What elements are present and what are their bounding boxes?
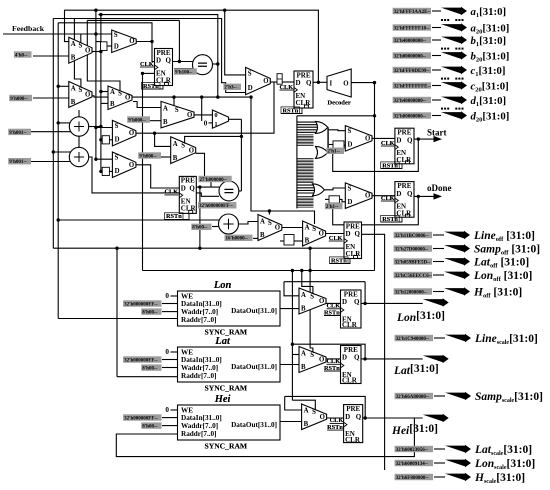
svg-text:Lonoff [31:0]: Lonoff [31:0] — [473, 270, 532, 283]
svg-text:B: B — [301, 364, 306, 371]
mux M13 Lat — [299, 347, 326, 373]
svg-text:S: S — [310, 352, 314, 359]
wire vertical select net x96 — [95, 10, 97, 159]
svg-text:Lat[31:0]: Lat[31:0] — [393, 363, 439, 377]
wire Latscale — [434, 448, 445, 450]
wire 8h00 const to adder U6 — [212, 226, 219, 228]
wire G3 input — [297, 187, 314, 189]
svg-text:PRE: PRE — [397, 129, 411, 137]
svg-text:O: O — [275, 225, 280, 232]
svg-text:32'h11BC0006--: 32'h11BC0006-- — [395, 234, 430, 239]
svg-text:Waddr[7..0]: Waddr[7..0] — [181, 422, 218, 430]
flip-flop FF3 — [179, 176, 196, 213]
junction — [94, 9, 97, 12]
bus arrow Lat — [423, 355, 449, 363]
bus arrow c20 — [441, 81, 467, 89]
svg-text:D: D — [342, 298, 347, 306]
wire G1 input — [297, 124, 318, 126]
wire adder U4 top stub — [78, 110, 80, 117]
RSTn FF4 — [381, 162, 402, 169]
wire FF7.Q out — [361, 302, 423, 304]
svg-text:Waddr[7..0]: Waddr[7..0] — [181, 364, 218, 372]
svg-text:0: 0 — [204, 119, 208, 127]
svg-text:2'h1--: 2'h1-- — [326, 205, 339, 210]
svg-text:27'h000000--: 27'h000000-- — [200, 178, 228, 183]
wire G3 input — [297, 189, 314, 191]
svg-text:S: S — [118, 90, 122, 97]
wire 16h0000 const to M7.B — [253, 237, 258, 239]
junction — [99, 13, 102, 16]
connector box SD1.D — [102, 136, 109, 144]
value 27h0 — [199, 176, 232, 183]
svg-text:Q: Q — [166, 57, 172, 65]
wire data net to M4.A — [101, 91, 108, 93]
junction — [115, 247, 118, 250]
svg-text:D: D — [114, 44, 119, 51]
wire Waddr const — [162, 367, 178, 369]
wire stub D box M3 — [96, 41, 101, 43]
svg-text:8'h00--: 8'h00-- — [142, 367, 157, 372]
bus arrow a20 — [441, 23, 467, 31]
flip-flop FF8 Lat — [341, 346, 362, 385]
wire G1 input — [297, 129, 318, 131]
svg-text:A: A — [110, 89, 115, 96]
svg-text:b1[31:0]: b1[31:0] — [471, 35, 507, 48]
wire M9.O to box — [270, 81, 277, 83]
svg-text:Raddr[7..0]: Raddr[7..0] — [181, 316, 217, 324]
value 16h0000 — [225, 235, 253, 242]
wire G1 input — [297, 121, 318, 123]
svg-text:PRE: PRE — [297, 71, 311, 79]
value b20 — [393, 52, 431, 59]
svg-text:D: D — [346, 230, 351, 238]
wire FF1.Q vertical — [178, 20, 180, 61]
mux M9 — [246, 67, 271, 94]
svg-text:32'hFFF0DE99--: 32'hFFF0DE99-- — [394, 69, 430, 74]
sync ram RAM1 Lon — [178, 280, 281, 336]
value 8h00 Waddr — [141, 364, 161, 371]
wire SD2 box to D — [109, 170, 112, 172]
wire d1 — [432, 99, 441, 101]
svg-text:Q: Q — [355, 230, 361, 238]
wire M2.S drop — [74, 19, 81, 88]
wire 9h001 const to adder U4 — [31, 131, 71, 133]
junction — [417, 137, 420, 140]
wire RAM2 DataOut to Lat mux B — [280, 364, 299, 366]
junction — [363, 357, 366, 360]
mux SD2 — [112, 152, 135, 178]
svg-text:D: D — [348, 199, 353, 206]
ellipsis dots — [441, 78, 464, 80]
adder U6 — [219, 214, 239, 234]
wire box to M11.D — [340, 199, 346, 201]
svg-text:DataIn[31..0]: DataIn[31..0] — [181, 300, 222, 308]
svg-text:S: S — [79, 43, 83, 50]
wire EN to FF1 — [143, 72, 155, 74]
svg-text:O: O — [129, 38, 134, 45]
wire WE const RAM1 — [171, 295, 178, 297]
wire M4.S drop — [87, 20, 120, 92]
wire Lonscale — [434, 462, 445, 464]
value Latoff — [394, 258, 432, 265]
wire Waddr const — [162, 311, 178, 313]
mux M8 — [303, 221, 326, 246]
mux M12 Lon — [299, 288, 326, 314]
svg-text:B: B — [71, 99, 76, 106]
svg-text:A: A — [301, 350, 306, 357]
wire box to M3.D — [107, 45, 112, 47]
junction — [94, 32, 97, 35]
RSTn FF8 — [324, 365, 341, 372]
or gate output bus bar — [327, 127, 329, 152]
adder U4 — [69, 117, 88, 136]
junction — [363, 302, 366, 305]
value 9h001 b — [8, 158, 31, 165]
wire Hoff — [433, 291, 444, 293]
wire box to M8.B — [294, 240, 303, 242]
svg-text:PRE: PRE — [344, 290, 358, 298]
mux M10 — [345, 126, 372, 152]
svg-text:Hei: Hei — [214, 394, 231, 405]
wire Lonoff — [433, 274, 444, 276]
svg-text:A: A — [301, 292, 306, 299]
value c1 — [393, 67, 431, 74]
svg-text:PRE: PRE — [157, 49, 171, 57]
value 8h00 — [191, 224, 211, 231]
wire a1 — [432, 10, 441, 12]
svg-text:Q: Q — [407, 136, 413, 144]
wire Lineoff — [433, 234, 444, 236]
wire FF9.Q out — [363, 417, 423, 419]
junction — [99, 50, 102, 53]
bus arrow Lonscale — [445, 459, 471, 467]
svg-text:S: S — [248, 71, 252, 78]
value Lonoff — [394, 272, 433, 279]
mux M6 — [171, 137, 196, 164]
wire G3 input — [297, 184, 314, 186]
wire select to SD1.S — [96, 127, 113, 129]
svg-text:9'h001--: 9'h001-- — [9, 160, 27, 165]
bus arrow Hoff — [444, 287, 470, 295]
wire Linescale — [434, 337, 445, 339]
junction — [198, 247, 201, 250]
wire WE const RAM3 — [171, 409, 178, 411]
wire FF3.Q down to enable line — [199, 187, 201, 248]
flip-flop FF7 Lon — [341, 290, 362, 329]
svg-text:Decoder: Decoder — [327, 100, 351, 107]
wire net to adder U4 upper input — [58, 122, 70, 124]
svg-text:32'h27D00000--: 32'h27D00000-- — [395, 247, 429, 252]
svg-text:B: B — [304, 421, 309, 428]
svg-text:CLR: CLR — [345, 436, 361, 444]
wire 9h001 const to adder U5 — [31, 161, 71, 163]
wire M11.O to FF5.D — [372, 195, 395, 197]
junction — [308, 247, 311, 250]
svg-text:Raddr[7..0]: Raddr[7..0] — [181, 372, 217, 380]
junction — [373, 114, 376, 117]
svg-text:PRE: PRE — [397, 182, 411, 190]
wire Hei hold loop — [285, 396, 366, 418]
wire Lat hold loop — [292, 344, 365, 359]
or gate G1 — [316, 121, 328, 133]
svg-text:PRE: PRE — [344, 346, 358, 354]
bus arrow Hscale — [445, 473, 471, 481]
mux M2 — [69, 82, 92, 108]
value 32h000000FF DataIn — [123, 300, 161, 307]
bus arrow Lonoff — [444, 271, 470, 279]
junction — [364, 416, 367, 419]
wire c20 — [432, 85, 441, 87]
junction — [417, 195, 420, 198]
svg-text:32'h000000FF--: 32'h000000FF-- — [124, 302, 158, 307]
svg-text:16'h0000--: 16'h0000-- — [226, 237, 249, 242]
bus arrow d20 — [441, 111, 467, 119]
svg-text:O: O — [320, 414, 325, 421]
wire to RAM1 Raddr — [58, 318, 177, 320]
wire 9h100 const to comparator U3 — [174, 68, 194, 70]
svg-text:S: S — [114, 32, 118, 39]
wire 9h000 const to M6.B — [161, 156, 171, 158]
wire top loop2 to comparator U3 output net — [98, 15, 217, 98]
comparator U7 — [219, 181, 239, 201]
wire FF8.Q out — [361, 358, 423, 360]
bus arrow Sampoff — [444, 244, 470, 252]
value 2h1 oDone — [325, 203, 343, 210]
value 9h000 M6 — [138, 152, 161, 159]
svg-text:Hscale[31:0]: Hscale[31:0] — [474, 472, 525, 485]
svg-text:32'h000000FF--: 32'h000000FF-- — [124, 416, 158, 421]
wire M10.O to FF4.D — [372, 137, 395, 139]
junction — [153, 132, 156, 135]
svg-text:A: A — [163, 105, 168, 112]
wire Lon mux O to FF7.D — [326, 302, 341, 304]
wire DataIn const — [162, 303, 178, 305]
svg-text:Q: Q — [356, 413, 362, 421]
svg-text:32'h66A80000--: 32'h66A80000-- — [396, 395, 430, 400]
svg-text:A: A — [304, 408, 309, 415]
value Sampscale — [395, 393, 433, 400]
svg-text:Lon[31:0]: Lon[31:0] — [396, 310, 445, 324]
oDone arrow head — [434, 193, 443, 199]
junction — [291, 269, 294, 272]
svg-text:O: O — [189, 147, 194, 154]
svg-text:I: I — [330, 80, 333, 87]
svg-text:B: B — [71, 55, 76, 62]
wire 9h000 const to M2.B — [33, 97, 69, 99]
svg-text:32'h6F800000--: 32'h6F800000-- — [396, 476, 429, 481]
wire to Lon mux S — [302, 271, 313, 295]
bus arrow Lon — [423, 298, 449, 306]
svg-text:SYNC_RAM: SYNC_RAM — [204, 327, 247, 336]
svg-text:32'h00000000--: 32'h00000000-- — [394, 54, 427, 59]
wire 4h8 const to M1.B — [33, 55, 69, 57]
junction — [99, 125, 102, 128]
svg-text:CLR: CLR — [342, 377, 358, 385]
CLK label FF9 — [330, 417, 344, 424]
wire M7.S feed from y97 net — [251, 97, 269, 211]
junction — [373, 81, 376, 84]
svg-text:DataIn[31..0]: DataIn[31..0] — [181, 414, 222, 422]
value Lineoff — [394, 232, 432, 239]
mux M01 constant select — [212, 110, 228, 128]
junction — [94, 158, 97, 161]
wire to RAM2 Raddr — [117, 376, 178, 378]
value b1 — [393, 37, 431, 44]
svg-text:O: O — [319, 357, 324, 364]
wire net FF2.Q top loop to M1.A — [65, 10, 319, 82]
svg-text:B: B — [301, 305, 306, 312]
svg-text:B: B — [305, 238, 310, 245]
svg-text:S: S — [79, 87, 83, 94]
wire c1 — [432, 69, 441, 71]
junction — [198, 185, 201, 188]
svg-text:O: O — [343, 80, 348, 87]
svg-text:0: 0 — [165, 406, 169, 414]
svg-text:32'h40000000--: 32'h40000000-- — [394, 99, 427, 104]
svg-text:CLR: CLR — [342, 321, 358, 329]
wire comparator U7 out — [239, 190, 242, 192]
wire DataIn const — [162, 359, 178, 361]
svg-text:D: D — [396, 136, 401, 144]
wire to 2h1 box oDone — [325, 198, 329, 200]
CLK label FF3 — [165, 189, 179, 196]
bus arrow Lineoff — [444, 231, 470, 239]
connector box M10.D — [333, 141, 344, 148]
wire branch to M6.A — [155, 133, 171, 146]
mux M7 — [258, 215, 282, 241]
wire branch to OR array — [297, 115, 375, 117]
value Sampoff — [394, 245, 432, 252]
wire decoder out — [351, 82, 374, 84]
sync ram RAM3 Hei — [178, 394, 281, 450]
wire b20 — [432, 55, 441, 57]
value a20 — [393, 24, 431, 31]
svg-text:Waddr[7..0]: Waddr[7..0] — [181, 308, 218, 316]
mux SD1 — [112, 120, 135, 145]
wire adder U4 out to data net — [89, 126, 101, 128]
wire M3.O to FF1.D — [136, 42, 155, 62]
value 2h1 Start — [326, 148, 344, 155]
value 8h00 Waddr — [141, 308, 161, 315]
wire mux01 out — [229, 118, 242, 120]
mux M3 — [112, 30, 137, 53]
svg-text:O: O — [263, 78, 268, 85]
svg-text:O: O — [365, 135, 370, 142]
wire oDone feedback loop — [333, 196, 419, 224]
flip-flop FF1 — [155, 49, 173, 86]
svg-text:PRE: PRE — [181, 177, 195, 185]
bus arrow d1 — [441, 96, 467, 104]
wire adder U4 to adder U5 — [78, 136, 80, 147]
svg-text:0: 0 — [165, 292, 169, 300]
wire top loop4 to FF1.D net — [58, 23, 152, 42]
svg-text:9'h100--: 9'h100-- — [175, 70, 193, 75]
svg-text:Q: Q — [189, 185, 195, 193]
flip-flop FF9 Hei — [344, 405, 363, 444]
svg-text:D: D — [345, 413, 350, 421]
junction — [178, 60, 181, 63]
junction — [150, 40, 153, 43]
wire M5.O to mux01 input0 — [194, 114, 212, 116]
RSTn FF6 — [330, 257, 351, 264]
value 4h8 — [14, 51, 32, 58]
svg-text:Feedback: Feedback — [12, 24, 45, 33]
svg-text:Q: Q — [407, 190, 413, 198]
svg-text:A: A — [260, 218, 265, 225]
svg-text:CLR: CLR — [296, 99, 312, 107]
svg-text:32'h000000FF--: 32'h000000FF-- — [124, 358, 158, 363]
svg-text:D: D — [181, 185, 186, 193]
wire y220 to adder U6 top — [58, 214, 228, 220]
svg-text:1: 1 — [214, 121, 217, 128]
svg-text:D: D — [248, 85, 253, 92]
wire OR input bus — [296, 116, 298, 209]
svg-text:Hoff [31:0]: Hoff [31:0] — [473, 287, 522, 300]
svg-text:32'hFFF3AA2E--: 32'hFFF3AA2E-- — [394, 10, 432, 15]
wire bottom feedback to RAM3 Raddr — [116, 418, 414, 457]
value 32h000000FF DataIn — [123, 356, 161, 363]
RSTn FF3 — [165, 213, 190, 220]
svg-text:Latoff [31:0]: Latoff [31:0] — [473, 257, 529, 270]
junction — [200, 95, 203, 98]
wire adder U6 out to M7.A — [239, 222, 259, 225]
junction — [57, 218, 60, 221]
junction — [52, 150, 55, 153]
wire box to M10.D — [344, 145, 345, 146]
CLK label FF8 — [327, 358, 341, 365]
svg-text:S: S — [175, 107, 179, 114]
svg-text:9'h000--: 9'h000-- — [10, 97, 28, 102]
wire top loop3 to mux M9.D — [53, 19, 245, 93]
svg-text:Start: Start — [427, 128, 447, 138]
RSTn FF1 — [142, 82, 164, 89]
svg-text:Q: Q — [354, 298, 360, 306]
svg-text:DataOut[31..0]: DataOut[31..0] — [231, 421, 277, 429]
svg-text:9'h001--: 9'h001-- — [9, 131, 27, 136]
wire select line to mux M3.S — [81, 33, 112, 35]
junction — [291, 343, 294, 346]
wire branch to M8.S — [269, 211, 314, 224]
svg-text:B: B — [173, 155, 178, 162]
svg-text:a1[31:0]: a1[31:0] — [471, 6, 507, 19]
svg-text:2'h3--: 2'h3-- — [224, 86, 237, 91]
comparator U3 — [193, 55, 213, 75]
bus arrow Latoff — [444, 257, 470, 265]
sync ram RAM2 Lat — [178, 336, 281, 392]
bus arrow Latscale — [445, 445, 471, 453]
wire FF4.Q Start — [414, 138, 435, 140]
svg-text:32'h000000FF--: 32'h000000FF-- — [199, 204, 233, 209]
RSTn FF5 — [381, 215, 402, 222]
svg-text:S: S — [312, 226, 316, 233]
svg-text:D: D — [156, 57, 161, 65]
wire WE const RAM2 — [171, 351, 178, 353]
wire Lon loop right leg — [364, 282, 366, 304]
wire comparator U3 out — [213, 63, 218, 65]
svg-text:S: S — [268, 220, 272, 227]
value c20 — [393, 82, 432, 89]
svg-text:32'h12000000--: 32'h12000000-- — [395, 290, 428, 295]
wire to M2.A — [58, 85, 69, 87]
value 8h00 Waddr — [141, 422, 161, 429]
junction — [249, 95, 252, 98]
CLK label FF6 — [329, 235, 343, 242]
junction — [223, 9, 226, 12]
value Hoff — [394, 288, 432, 295]
svg-text:B: B — [110, 101, 115, 108]
svg-text:A: A — [71, 85, 76, 92]
or gate G3 — [313, 184, 325, 196]
